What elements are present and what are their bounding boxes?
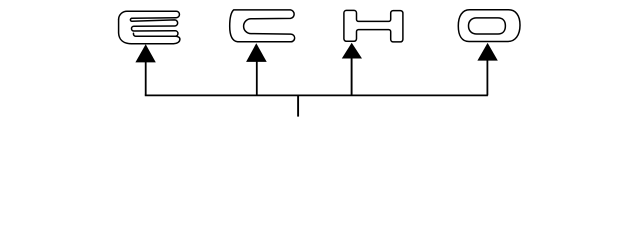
arrow 2 stem [256, 61, 258, 95]
emblem letter H [344, 10, 403, 42]
arrow 1 stem [145, 62, 147, 96]
emblem letter E [119, 11, 180, 44]
emblem letter C [230, 10, 295, 42]
arrow 3 stem [351, 58, 353, 96]
arrow 3 head (points at letter H) [342, 43, 362, 59]
callout drop line (vertical, below bus) [297, 95, 299, 116]
arrow 2 head (points at letter C) [246, 43, 267, 62]
leader bus line (horizontal) [145, 94, 488, 96]
arrow 4 head (points at letter O) [477, 43, 497, 61]
arrow 4 stem [486, 60, 488, 96]
emblem letter O [458, 10, 520, 42]
arrow 1 head (points at letter E) [135, 44, 155, 62]
